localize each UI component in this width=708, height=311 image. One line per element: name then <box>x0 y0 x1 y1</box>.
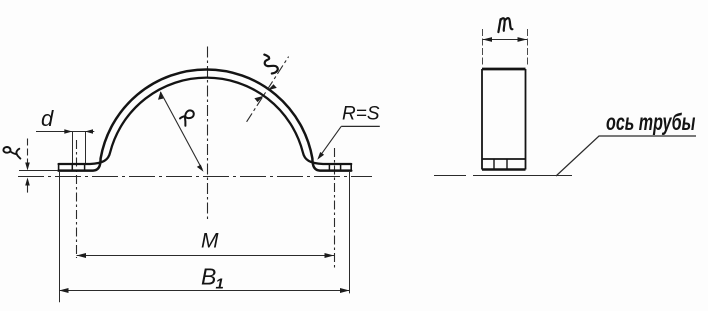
B1 dimension line <box>59 290 350 292</box>
clamp outer outline <box>59 69 352 170</box>
side view body rectangle <box>482 69 526 170</box>
B1 extension line left <box>59 172 61 302</box>
clamp inner outline <box>59 78 352 164</box>
svg-text:R=S: R=S <box>342 104 380 125</box>
R=S leader line <box>321 126 342 155</box>
svg-text:d: d <box>41 106 54 131</box>
foot bottom extension line (left, for s dim) <box>19 170 58 172</box>
d extension lines <box>73 131 86 163</box>
hole centerline left <box>76 140 78 258</box>
label R (cursive, drawn as P-like glyph) <box>180 110 194 125</box>
m extension lines <box>483 29 528 66</box>
M dimension line <box>77 255 335 257</box>
m dimension line <box>483 39 528 41</box>
R=S underline <box>341 125 380 127</box>
B1 dimension arrows <box>59 288 350 293</box>
hole centerline right <box>334 148 336 268</box>
leader line to pipe axis <box>556 136 696 176</box>
cursive S label (arch thickness) <box>264 55 277 74</box>
S dim arrow upper (points to outer arc) <box>268 84 277 90</box>
side view foot ticks <box>494 159 507 170</box>
svg-text:B: B <box>201 264 216 290</box>
left foot end cap <box>58 164 60 171</box>
d dimension arrows <box>64 129 93 133</box>
right foot end cap <box>350 164 352 171</box>
pipe axis centerline (side view) <box>434 175 572 177</box>
S dim arrow lower (points to inner arc) <box>254 96 263 102</box>
rotated cursive s letter (foot thickness) <box>3 147 20 159</box>
R arrow tick at arc <box>158 92 164 100</box>
R arrow at center <box>197 165 204 172</box>
B1 extension line right <box>349 172 351 293</box>
d dimension line <box>36 131 94 133</box>
R=S leader arrow <box>317 152 324 160</box>
label m <box>498 18 512 32</box>
pipe axis centerline (main view) <box>18 176 372 178</box>
svg-text:M: M <box>201 230 219 253</box>
M dimension arrows <box>77 253 335 258</box>
left foot hole edges <box>72 164 84 171</box>
radius R leader line <box>160 92 202 170</box>
S thickness dimension diagonal line <box>247 57 289 122</box>
m dimension arrows <box>483 37 528 42</box>
right foot hole edges <box>329 164 340 171</box>
s thickness dimension (far left): vertical line + arrows <box>27 139 29 193</box>
svg-text:ось трубы: ось трубы <box>606 110 695 135</box>
vertical centerline of clamp <box>207 47 209 223</box>
svg-text:1: 1 <box>216 276 224 293</box>
